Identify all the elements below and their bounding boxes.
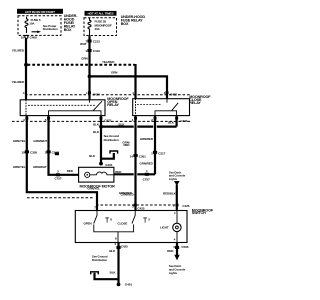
svg-text:LIGHT: LIGHT bbox=[160, 225, 169, 229]
svg-text:BOX: BOX bbox=[64, 28, 72, 32]
svg-text:GRN/YEL: GRN/YEL bbox=[13, 165, 26, 169]
svg-text:10: 10 bbox=[21, 35, 25, 39]
svg-text:BOX: BOX bbox=[121, 22, 129, 26]
svg-text:GRN/YEL: GRN/YEL bbox=[13, 139, 26, 143]
svg-text:HOT IN ON OR START: HOT IN ON OR START bbox=[25, 10, 55, 14]
svg-text:Lights: Lights bbox=[169, 271, 178, 275]
svg-text:OPEN: OPEN bbox=[84, 222, 92, 226]
svg-text:GRN/WHT: GRN/WHT bbox=[33, 139, 47, 143]
svg-text:10: 10 bbox=[21, 151, 25, 155]
svg-text:BLK: BLK bbox=[93, 130, 100, 134]
svg-text:Lights: Lights bbox=[169, 177, 178, 181]
svg-text:C419: C419 bbox=[93, 49, 100, 53]
svg-text:RELAY: RELAY bbox=[189, 101, 201, 105]
svg-text:BLK: BLK bbox=[109, 249, 116, 253]
svg-text:BLK: BLK bbox=[89, 154, 96, 158]
svg-text:C301: C301 bbox=[139, 154, 146, 158]
svg-text:BLK: BLK bbox=[119, 122, 126, 126]
svg-text:C506: C506 bbox=[181, 245, 188, 249]
svg-text:RELAY: RELAY bbox=[107, 103, 119, 107]
svg-text:G401: G401 bbox=[125, 282, 133, 286]
svg-text:GRN/YEL: GRN/YEL bbox=[87, 187, 100, 191]
svg-text:14: 14 bbox=[130, 154, 134, 158]
svg-text:C423: C423 bbox=[180, 119, 187, 123]
svg-text:HOT AT ALL TIMES: HOT AT ALL TIMES bbox=[88, 12, 114, 16]
svg-text:Distribution: Distribution bbox=[92, 258, 107, 262]
svg-text:C317: C317 bbox=[158, 151, 165, 155]
svg-text:GRN: GRN bbox=[81, 56, 87, 60]
svg-text:RED: RED bbox=[67, 169, 74, 173]
svg-text:BLK: BLK bbox=[93, 122, 100, 126]
svg-text:WHT: WHT bbox=[80, 42, 87, 46]
svg-text:Distribution: Distribution bbox=[43, 27, 58, 31]
svg-text:RED: RED bbox=[123, 143, 130, 147]
svg-text:GRN/RED: GRN/RED bbox=[121, 192, 135, 196]
svg-text:GRN: GRN bbox=[111, 70, 117, 74]
svg-text:C305: C305 bbox=[30, 151, 37, 155]
svg-text:C757: C757 bbox=[143, 178, 150, 182]
svg-text:C425: C425 bbox=[121, 245, 128, 249]
svg-text:Distribution: Distribution bbox=[104, 138, 119, 142]
svg-text:RED: RED bbox=[115, 170, 122, 174]
svg-text:BLK: BLK bbox=[110, 271, 117, 275]
svg-text:10A: 10A bbox=[29, 21, 35, 25]
svg-text:SWITCH: SWITCH bbox=[192, 211, 206, 215]
svg-text:YEL/RED: YEL/RED bbox=[102, 60, 115, 64]
svg-text:GRN/RED: GRN/RED bbox=[140, 162, 154, 166]
svg-text:C420: C420 bbox=[93, 92, 100, 96]
svg-text:C409: C409 bbox=[30, 35, 37, 39]
svg-text:40A: 40A bbox=[95, 27, 101, 31]
svg-text:RED/BLK: RED/BLK bbox=[163, 191, 177, 195]
svg-text:YEL/RED: YEL/RED bbox=[12, 49, 25, 53]
svg-text:C422: C422 bbox=[170, 92, 177, 96]
svg-text:RED: RED bbox=[167, 249, 174, 253]
svg-text:GRN/WHT: GRN/WHT bbox=[33, 165, 47, 169]
svg-text:BLK: BLK bbox=[168, 120, 175, 124]
svg-text:GRN/RED: GRN/RED bbox=[140, 137, 154, 141]
svg-text:YEL/RED: YEL/RED bbox=[12, 80, 25, 84]
svg-text:G401: G401 bbox=[105, 163, 113, 167]
svg-text:CLOSE: CLOSE bbox=[118, 222, 128, 226]
svg-text:C426: C426 bbox=[182, 204, 189, 208]
svg-text:C757: C757 bbox=[55, 177, 62, 181]
svg-text:C213: C213 bbox=[93, 39, 100, 43]
svg-text:C422: C422 bbox=[104, 119, 111, 123]
